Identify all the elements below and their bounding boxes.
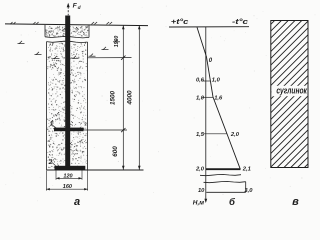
svg-text:3,0: 3,0 bbox=[244, 188, 253, 194]
svg-text:4000: 4000 bbox=[126, 90, 133, 106]
svg-text:+t°с: +t°с bbox=[171, 17, 190, 26]
svg-text:1900: 1900 bbox=[114, 36, 120, 48]
svg-text:1,6: 1,6 bbox=[214, 96, 223, 102]
svg-text:2,0: 2,0 bbox=[230, 132, 240, 138]
svg-text:0,6: 0,6 bbox=[196, 77, 205, 83]
svg-text:1500: 1500 bbox=[110, 91, 117, 106]
svg-text:160: 160 bbox=[63, 184, 72, 190]
svg-text:в: в bbox=[292, 196, 299, 208]
svg-text:суглинок: суглинок bbox=[276, 85, 307, 95]
svg-text:1,0: 1,0 bbox=[196, 96, 205, 102]
svg-text:Н,м: Н,м bbox=[193, 200, 205, 207]
svg-text:600: 600 bbox=[112, 146, 119, 157]
svg-text:1,5: 1,5 bbox=[196, 132, 205, 138]
svg-text:-t°с: -t°с bbox=[232, 17, 249, 26]
svg-text:2,0: 2,0 bbox=[195, 166, 205, 172]
svg-text:1,0: 1,0 bbox=[212, 77, 221, 83]
svg-text:10: 10 bbox=[198, 188, 205, 194]
svg-text:а: а bbox=[74, 196, 80, 208]
svg-text:1: 1 bbox=[50, 121, 54, 128]
svg-text:120: 120 bbox=[63, 173, 72, 179]
svg-text:2,1: 2,1 bbox=[242, 167, 251, 173]
